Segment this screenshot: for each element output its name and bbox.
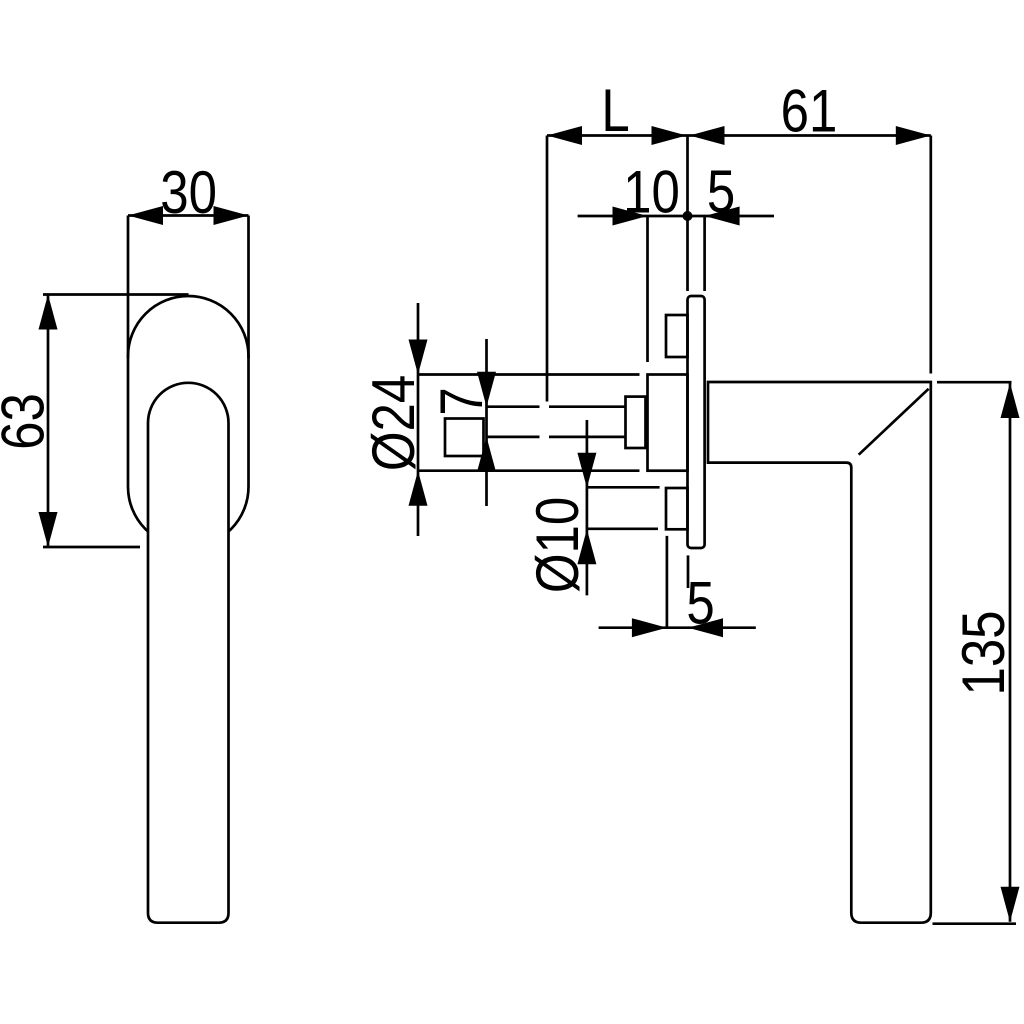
svg-text:Ø10: Ø10: [524, 497, 591, 593]
dim 5: right extension line: [703, 216, 706, 291]
dim 5 bottom: left extension line: [666, 536, 669, 628]
arrowhead dimØ10 bottom (pointing up): [577, 529, 596, 564]
dim L/61: dimension line: [547, 134, 931, 137]
dim Ø10: dimension line segments: [586, 420, 589, 595]
side view: spindle shaft lines with break: [487, 407, 626, 437]
arrowhead dim61 left: [690, 126, 725, 145]
svg-text:L: L: [601, 77, 629, 144]
arrowhead dim30 left: [128, 206, 163, 225]
dim 63: top extension line: [43, 293, 189, 296]
svg-text:63: 63: [0, 393, 56, 450]
dim Ø24: dimension line segments: [417, 303, 420, 536]
front view: rosette stadium outline: [128, 296, 249, 547]
arrowhead dimL left: [547, 126, 582, 145]
arrowhead dim5btm (outside right, pointing left): [688, 618, 723, 637]
side view: top boss behind plate: [666, 315, 688, 357]
front view: handle grip bar: [148, 383, 229, 923]
arrowhead dim135 top (pointing up): [1001, 383, 1020, 418]
junction dot between dim10 and dim5: [683, 211, 693, 221]
dim Ø24: top extension line: [419, 373, 640, 376]
arrowhead dim30 right: [214, 206, 249, 225]
svg-text:5: 5: [707, 158, 735, 225]
svg-text:Ø24: Ø24: [360, 375, 427, 471]
side view: rosette plate: [688, 296, 705, 548]
svg-text:135: 135: [950, 610, 1017, 695]
arrowhead dim7 top (pointing down): [477, 372, 496, 407]
dim 135: top extension line: [937, 381, 1012, 384]
side view: elbow inner chamfer line: [859, 389, 929, 455]
dim 7: dimension line segments: [485, 339, 488, 506]
svg-text:30: 30: [160, 159, 217, 226]
dim 5 bottom: right extension line: [687, 555, 690, 588]
side view: spindle square end: [445, 419, 484, 457]
svg-text:10: 10: [623, 159, 680, 226]
dim 5 bottom: dimension line: [599, 626, 756, 629]
dim Ø10: bottom extension line: [587, 527, 658, 530]
dim 10: left extension line: [646, 216, 649, 362]
arrowhead dim5 (outside right, pointing left): [705, 207, 740, 226]
arrowhead dim10 (outside left, pointing right): [613, 207, 648, 226]
svg-text:7: 7: [428, 387, 495, 415]
arrowhead dim7 bottom (pointing up): [477, 437, 496, 472]
svg-text:61: 61: [781, 78, 838, 145]
svg-text:5: 5: [686, 570, 714, 637]
arrowhead dim135 bottom (pointing down): [1001, 887, 1020, 922]
arrowhead dim61 right: [896, 126, 931, 145]
dim Ø10: top extension line: [587, 486, 660, 489]
arrowhead dim63 bottom: [39, 512, 58, 547]
arrowhead dim63 top: [39, 295, 58, 330]
dim L: left extension line: [546, 136, 549, 402]
arrowhead dimL right: [652, 126, 687, 145]
dim 63: bottom extension line: [43, 546, 140, 549]
side view: bottom boss behind plate: [666, 488, 688, 529]
side view: collar block (Ø24 x 10): [648, 375, 688, 471]
dim 135: dimension line: [1009, 383, 1012, 922]
dim Ø24: bottom extension line: [419, 469, 640, 472]
dim 61: right extension line: [929, 136, 932, 374]
dim 135: bottom extension line: [933, 922, 1017, 925]
side view: handle L-shape outline: [708, 382, 931, 923]
dim 10/5: dimension line: [578, 215, 774, 218]
front view: extension lines of dim 30 down to rosette sides: [128, 216, 249, 359]
arrowhead dimØ24 bottom (pointing up): [409, 471, 428, 506]
dim L/61: plate face extension line: [686, 136, 689, 292]
arrowhead dimØ24 top (pointing down): [409, 340, 428, 375]
side view: spindle wide section: [626, 397, 646, 448]
dim 30: dimension line: [128, 214, 249, 217]
arrowhead dimØ10 top (pointing down): [577, 453, 596, 488]
arrowhead dim5btm (outside left, pointing right): [632, 618, 667, 637]
dim 63: dimension line: [47, 295, 50, 548]
